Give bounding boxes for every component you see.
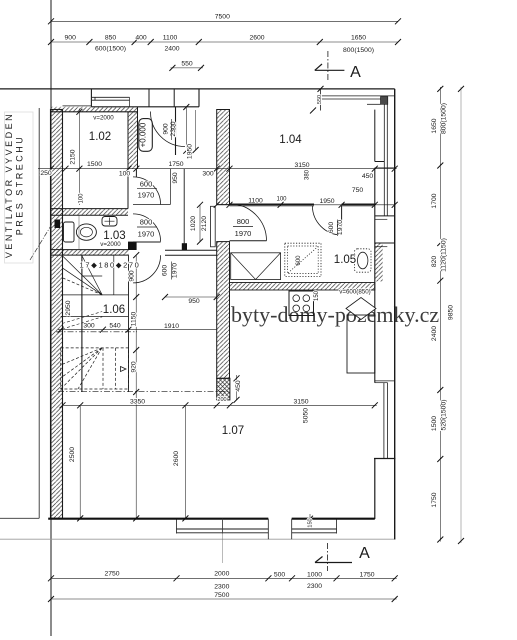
east wall inner face lower (374, 459, 376, 520)
svg-text:950: 950 (172, 172, 179, 184)
stairs landing diagonals (62, 312, 102, 330)
svg-text:2950: 2950 (65, 300, 72, 315)
svg-text:2300: 2300 (307, 583, 322, 590)
top overall dim line 7500 (51, 20, 398, 22)
svg-text:+0.000: +0.000 (139, 122, 148, 147)
svg-text:100: 100 (276, 197, 287, 203)
right segment dim line (439, 87, 441, 542)
svg-text:2000: 2000 (214, 571, 229, 578)
svg-text:200: 200 (217, 397, 226, 403)
svg-text:9850: 9850 (448, 305, 455, 320)
bottom overall dim line (51, 598, 397, 600)
stair direction marker (121, 367, 127, 372)
svg-text:820: 820 (431, 256, 438, 268)
open door leaf rect (211, 206, 216, 247)
svg-text:2600: 2600 (249, 35, 264, 42)
bottom segment dim line (51, 577, 397, 579)
entrance door leaf (175, 107, 177, 155)
east wall inner face mid (374, 168, 376, 383)
svg-text:1120(1150): 1120(1150) (441, 238, 448, 272)
line under stairs to wall (129, 329, 217, 331)
svg-text:1970: 1970 (235, 229, 252, 238)
stairs upper flight treads (61, 255, 129, 316)
svg-text:300: 300 (202, 171, 214, 178)
east window lower sill bottom (374, 458, 395, 460)
svg-text:1950: 1950 (319, 198, 334, 205)
1.04 north window sill lines (321, 89, 395, 111)
svg-text:1750: 1750 (359, 572, 374, 579)
svg-text:100: 100 (79, 193, 85, 204)
svg-text:v=2000: v=2000 (100, 241, 121, 248)
dim 550 line (171, 67, 204, 69)
svg-text:1.07: 1.07 (222, 425, 244, 437)
dining diamond (346, 298, 376, 320)
svg-text:850: 850 (105, 35, 117, 42)
1.07 dashed ceiling line (58, 390, 230, 392)
ticks interior y168.7 (48, 166, 398, 172)
1.04/1.05 partition (230, 204, 375, 206)
svg-text:380: 380 (305, 169, 311, 180)
svg-text:550: 550 (181, 60, 193, 67)
kitchen island counter (347, 315, 375, 373)
east window glazing lower (384, 383, 388, 459)
window recess sill 1.04 (375, 162, 395, 168)
svg-text:800: 800 (237, 217, 250, 226)
svg-text:1970: 1970 (138, 191, 155, 200)
door label 800/1970 bath (138, 218, 155, 239)
top segment dim line (51, 41, 398, 43)
south window W2 (292, 519, 337, 540)
bath vent duct (55, 220, 61, 229)
svg-text:450: 450 (235, 380, 242, 392)
stairwell right edge (128, 255, 130, 392)
svg-text:1000: 1000 (307, 572, 322, 579)
svg-text:800(1500): 800(1500) (343, 47, 374, 54)
svg-text:1950: 1950 (186, 144, 193, 159)
svg-text:1650: 1650 (431, 118, 438, 133)
rotated dim labels (65, 95, 455, 528)
kitchen sink unit (355, 249, 372, 272)
vdim 450 chimney (236, 375, 238, 400)
hall/living wall lower (hatched) (217, 242, 230, 379)
door hall to 1.07 swing (133, 255, 161, 283)
door jamb post bath (128, 242, 137, 250)
+0.000 level box (139, 119, 153, 152)
svg-text:VENTILATOR VYVEDEN: VENTILATOR VYVEDEN (4, 112, 14, 258)
washbasin (102, 217, 117, 227)
interior dim line y168.7 (38, 168, 397, 170)
svg-text:900: 900 (129, 270, 136, 282)
svg-text:2400: 2400 (164, 46, 179, 53)
svg-text:800: 800 (140, 218, 153, 227)
section A bottom (315, 543, 370, 571)
svg-text:1.02: 1.02 (89, 131, 111, 143)
svg-text:5050: 5050 (303, 408, 310, 423)
door fraction labels (138, 180, 252, 239)
svg-text:950: 950 (188, 298, 200, 305)
wall between 1.03 and 1.06 (hatched) (51, 250, 129, 256)
svg-text:A: A (359, 545, 370, 562)
ticks misc vdims (76, 86, 323, 522)
svg-text:byty-domy-pozemky.cz: byty-domy-pozemky.cz (231, 302, 439, 327)
svg-text:600: 600 (328, 222, 335, 234)
section A top (315, 51, 361, 81)
svg-text:3350: 3350 (130, 399, 145, 406)
neighbor outline bottom (0, 517, 39, 519)
svg-text:1750: 1750 (168, 161, 183, 168)
ticks stairs dim (58, 252, 140, 521)
hall east wall line (183, 169, 185, 251)
ventilator note (4, 112, 24, 258)
east exterior wall outer face (394, 89, 396, 540)
svg-text:7500: 7500 (215, 13, 230, 20)
svg-text:2120: 2120 (201, 216, 208, 231)
svg-text:800(1500): 800(1500) (441, 103, 448, 134)
ticks right dims (437, 86, 464, 544)
ticks top dims (48, 18, 401, 71)
east wall inner face upper (374, 110, 376, 162)
svg-text:750: 750 (352, 187, 364, 194)
left exterior wall (hatched) (51, 110, 63, 519)
svg-text:1750: 1750 (431, 492, 438, 507)
svg-text:1100: 1100 (163, 35, 178, 42)
outer gray ground line bottom (0, 538, 395, 540)
svg-text:1500: 1500 (431, 416, 438, 431)
top-left closet band (63, 89, 200, 107)
entrance door swing (150, 112, 185, 147)
vdim 2500 (79, 405, 81, 518)
svg-text:600: 600 (162, 265, 169, 277)
door hall to 1.05 swing (230, 204, 267, 241)
door 1.04 to 1.05 swing (312, 206, 341, 235)
svg-text:600: 600 (140, 180, 153, 189)
svg-text:v=600(850): v=600(850) (339, 289, 370, 296)
vdim 102 room left (78, 109, 80, 206)
stove (289, 291, 314, 316)
east window glazing upper (384, 104, 387, 216)
svg-text:17◆180◆270: 17◆180◆270 (80, 261, 141, 270)
fraction lines for rotated door labels (170, 119, 172, 140)
wc cistern (64, 222, 75, 242)
svg-text:300: 300 (83, 323, 95, 330)
site/facade horizontal line (0, 88, 395, 90)
svg-text:A: A (350, 64, 361, 81)
room 1.02 top wall (hatched) (51, 107, 138, 112)
svg-text:900: 900 (163, 123, 170, 135)
svg-text:600: 600 (296, 255, 302, 266)
small notes (93, 115, 370, 296)
svg-text:150: 150 (308, 518, 314, 527)
svg-text:1970: 1970 (138, 230, 155, 239)
svg-text:3150: 3150 (294, 162, 309, 169)
room labels (89, 131, 356, 437)
stairs lower flight (dashed) (61, 348, 129, 389)
svg-text:1910: 1910 (164, 323, 179, 330)
vdim 950 hall (165, 296, 217, 298)
svg-text:900: 900 (65, 35, 77, 42)
svg-text:1650: 1650 (351, 35, 366, 42)
corner post (dark) (381, 97, 388, 105)
entrance porch jambs (148, 89, 150, 107)
vent leader line (30, 224, 52, 260)
svg-text:1020: 1020 (190, 216, 197, 231)
svg-text:v=2000: v=2000 (93, 115, 114, 122)
svg-text:400: 400 (135, 35, 147, 42)
svg-text:2500: 2500 (69, 447, 76, 462)
hall/living wall upper (hatched) (217, 110, 230, 205)
door hall to 1.05 leaf (230, 240, 267, 242)
svg-text:2400: 2400 (431, 326, 438, 341)
svg-text:1.04: 1.04 (279, 134, 302, 146)
svg-text:2750: 2750 (104, 571, 119, 578)
svg-text:1.05: 1.05 (334, 254, 356, 266)
ticks y405.3 (60, 402, 378, 408)
door jamb post hall (182, 243, 187, 250)
kitchen corner unit (231, 253, 281, 280)
ext line 150 tick bottom (309, 514, 311, 527)
ticks bottom dims (48, 575, 398, 602)
svg-text:1.06: 1.06 (103, 304, 125, 316)
svg-text:250: 250 (40, 170, 52, 177)
svg-text:920: 920 (131, 361, 138, 373)
svg-text:1500: 1500 (87, 161, 102, 168)
right overall dim line (460, 87, 462, 543)
wall between 1.02 and 1.03 (hatched) (51, 209, 128, 216)
bath partition line (78, 215, 80, 249)
svg-text:1700: 1700 (431, 193, 438, 208)
entry dim stub (195, 110, 197, 150)
hall south wall (165, 250, 217, 255)
svg-text:1100: 1100 (248, 198, 263, 205)
stairs winder diagonals upper (62, 256, 102, 295)
vent note frame (5, 112, 34, 263)
wc bowl (76, 224, 96, 240)
site grid vertical line (50, 0, 52, 636)
svg-text:450: 450 (362, 173, 374, 180)
door 1.04 to 1.05 leaf (341, 206, 343, 235)
svg-text:2300: 2300 (214, 584, 229, 591)
svg-text:550: 550 (317, 95, 323, 104)
svg-text:1150: 1150 (131, 311, 138, 326)
wall between 1.02 and hall (hatched) (128, 107, 138, 209)
south window W1 (177, 519, 269, 540)
svg-text:540: 540 (109, 323, 121, 330)
east wall hatched pier (375, 243, 395, 281)
door niche line (169, 169, 171, 205)
svg-text:2150: 2150 (69, 149, 76, 164)
stair flight vertical edge (81, 255, 83, 392)
svg-text:1970: 1970 (337, 220, 344, 235)
stairs dim line y329.7 (58, 329, 129, 331)
svg-text:1970: 1970 (172, 263, 179, 278)
svg-text:PRES STRECHU: PRES STRECHU (14, 135, 24, 236)
door 1.03 swing (133, 214, 161, 242)
svg-text:500: 500 (274, 572, 286, 579)
kitchen dotted unit (285, 243, 321, 276)
svg-text:150: 150 (314, 290, 320, 301)
door 1.02 hinge line (133, 204, 170, 206)
svg-text:7500: 7500 (214, 592, 229, 599)
east window lower sill top (375, 381, 395, 383)
ext line bottom (221, 519, 223, 563)
door 1.03 leaf open (133, 241, 161, 243)
ticks interior y204.8 (214, 202, 398, 208)
vdim x136.2 stairs (135, 255, 137, 518)
stair break dashed line (56, 331, 137, 333)
interior dim line y204.8 (217, 204, 395, 206)
vdim 2600 (184, 405, 186, 518)
interior dim line y405.3 (63, 404, 377, 406)
door 1.02 swing (133, 177, 161, 205)
south wall east part (thick) (292, 518, 375, 520)
neighbor outline vertical (38, 108, 40, 518)
svg-text:2600: 2600 (173, 451, 180, 466)
vdim 1950 entry (185, 107, 187, 151)
svg-text:100: 100 (119, 171, 131, 178)
chimney block (crosshatch) (217, 378, 230, 400)
vdim 1020/2120 (199, 205, 201, 242)
east wall sill at 216 (375, 216, 395, 219)
svg-text:600(1500): 600(1500) (95, 46, 126, 53)
svg-text:3150: 3150 (293, 399, 308, 406)
kitchen parapet wall (hatched) (230, 283, 375, 291)
svg-text:520(1500): 520(1500) (441, 400, 448, 431)
south wall west part (thick) (48, 518, 268, 520)
